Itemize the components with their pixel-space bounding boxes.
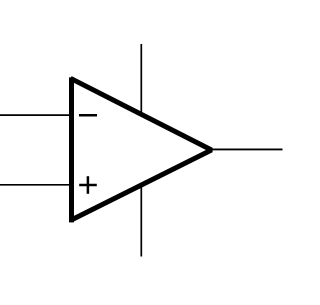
wire: positive supply (top) xyxy=(140,44,142,114)
wire: inverting input xyxy=(0,114,71,116)
wire: output xyxy=(210,148,283,150)
wire: negative supply (bottom) xyxy=(140,185,142,256)
op-amp U1 body: top and bottom edges with bevel apex xyxy=(71,78,212,220)
non-invert input label "+" vertical bar xyxy=(87,176,90,194)
op-amp U1 body: left edge xyxy=(69,77,74,222)
wire: non-inverting input xyxy=(0,184,71,186)
inverting input label "-" xyxy=(79,114,97,117)
non-invert input label "+" horizontal bar xyxy=(79,184,97,187)
